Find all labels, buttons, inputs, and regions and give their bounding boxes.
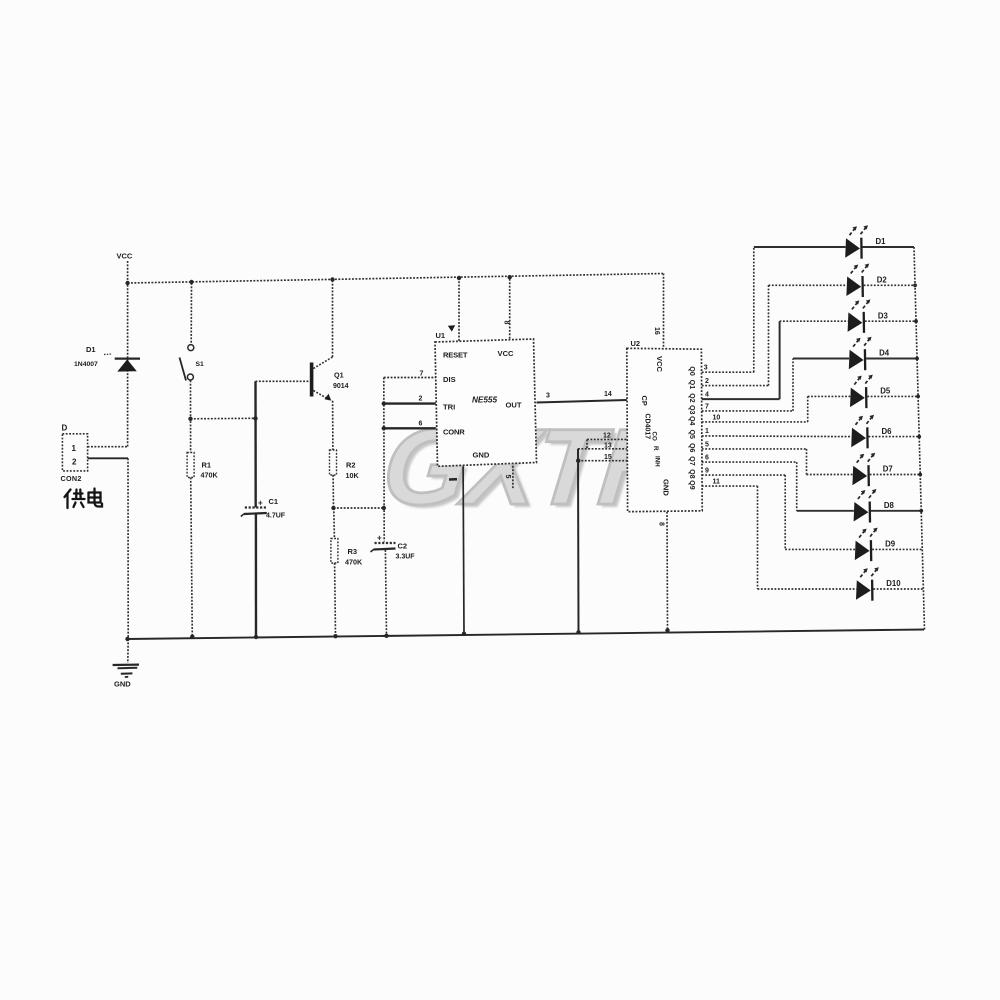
svg-text:D5: D5 (880, 387, 891, 396)
svg-text:4: 4 (705, 392, 709, 399)
svg-text:2: 2 (419, 396, 423, 403)
svg-text:R2: R2 (346, 461, 356, 470)
svg-text:Q6: Q6 (688, 443, 695, 452)
svg-text:7: 7 (705, 403, 709, 410)
svg-text:1: 1 (72, 444, 77, 453)
svg-text:D2: D2 (877, 276, 888, 285)
svg-text:D7: D7 (883, 465, 893, 474)
svg-text:+: + (377, 534, 382, 543)
svg-text:CP: CP (640, 396, 649, 406)
svg-text:6: 6 (705, 455, 709, 462)
svg-text:D6: D6 (882, 427, 893, 436)
svg-text:R1: R1 (202, 461, 212, 470)
svg-text:S1: S1 (196, 361, 205, 368)
svg-text:GND: GND (114, 680, 131, 689)
svg-text:RESET: RESET (443, 351, 468, 360)
svg-text:D4: D4 (879, 349, 890, 358)
svg-text:Q5: Q5 (688, 430, 695, 439)
svg-text:DIS: DIS (443, 375, 456, 384)
svg-text:D3: D3 (878, 311, 889, 320)
svg-text:1N4007: 1N4007 (74, 361, 98, 368)
svg-text:1: 1 (705, 428, 709, 435)
svg-text:CD4017: CD4017 (644, 414, 651, 440)
svg-text:11: 11 (713, 479, 721, 486)
svg-text:3: 3 (546, 393, 550, 400)
svg-text:GND: GND (662, 479, 671, 496)
svg-text:D8: D8 (884, 501, 895, 510)
svg-text:3: 3 (704, 365, 708, 372)
svg-text:9: 9 (705, 468, 709, 475)
svg-text:2: 2 (705, 378, 709, 385)
svg-text:5: 5 (705, 441, 709, 448)
svg-text:Q1: Q1 (688, 380, 695, 389)
svg-text:Q8: Q8 (688, 469, 695, 478)
svg-text:10: 10 (713, 414, 721, 421)
svg-text:D9: D9 (885, 540, 896, 549)
svg-text:7: 7 (420, 371, 424, 378)
svg-text:CON2: CON2 (61, 474, 82, 483)
svg-text:VCC: VCC (655, 356, 664, 373)
svg-text:R3: R3 (348, 547, 358, 556)
svg-text:Q7: Q7 (688, 456, 695, 465)
svg-text:13: 13 (604, 443, 612, 450)
svg-text:12: 12 (603, 433, 611, 440)
svg-text:CO: CO (651, 432, 658, 441)
svg-text:470K: 470K (345, 558, 363, 567)
svg-text:10K: 10K (346, 471, 360, 480)
svg-text:6: 6 (419, 421, 423, 428)
svg-text:Q3: Q3 (688, 405, 695, 414)
svg-text:CONR: CONR (443, 428, 465, 437)
svg-text:Q2: Q2 (688, 393, 695, 402)
svg-text:INH: INH (654, 456, 661, 467)
svg-text:VCC: VCC (498, 349, 515, 358)
svg-text:D10: D10 (886, 579, 901, 588)
svg-text:TRI: TRI (443, 403, 455, 412)
svg-text:U2: U2 (631, 339, 641, 348)
svg-text:5: 5 (504, 475, 513, 479)
svg-text:Q0: Q0 (688, 366, 695, 375)
svg-text:3.3UF: 3.3UF (396, 554, 416, 561)
svg-text:OUT: OUT (506, 401, 522, 410)
svg-text:+: + (258, 499, 263, 508)
svg-text:NE555: NE555 (472, 396, 497, 405)
svg-text:D1: D1 (876, 237, 887, 246)
svg-text:U1: U1 (436, 331, 446, 340)
svg-text:D1: D1 (86, 345, 96, 354)
svg-text:VCC: VCC (117, 252, 133, 261)
svg-text:8: 8 (503, 321, 510, 325)
svg-text:2: 2 (72, 458, 77, 467)
svg-text:Q4: Q4 (688, 416, 695, 425)
svg-text:4.7UF: 4.7UF (266, 513, 286, 520)
svg-text:C2: C2 (398, 542, 408, 551)
svg-text:14: 14 (604, 391, 612, 398)
svg-text:R: R (652, 446, 659, 451)
svg-text:GND: GND (473, 451, 490, 460)
svg-text:16: 16 (653, 327, 660, 335)
svg-text:Q9: Q9 (688, 480, 695, 489)
svg-text:Q1: Q1 (334, 371, 344, 380)
svg-text:C1: C1 (269, 497, 279, 506)
svg-text:D: D (62, 424, 68, 433)
svg-text:470K: 470K (201, 471, 219, 480)
svg-text:9014: 9014 (333, 383, 349, 390)
svg-text:8: 8 (658, 522, 665, 526)
svg-text:15: 15 (604, 454, 612, 461)
